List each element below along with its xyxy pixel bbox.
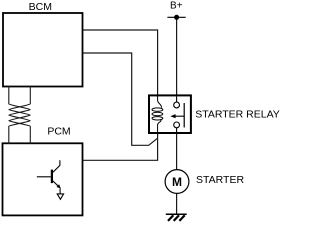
wire motor to ground (176, 193, 178, 214)
svg-text:STARTER RELAY: STARTER RELAY (195, 109, 280, 121)
motor M1 (165, 170, 189, 194)
relay contact top pin (174, 97, 180, 108)
svg-text:BCM: BCM (29, 1, 52, 13)
twisted pair wire B (BCM to PCM) (9, 86, 31, 144)
box PCM (3, 143, 83, 215)
ground chassis symbol (166, 214, 187, 221)
wire BCM pin1 to relay coil top (83, 30, 158, 95)
relay actuation arrow (170, 114, 184, 118)
svg-text:M: M (172, 175, 182, 189)
relay armature bar (183, 103, 185, 128)
relay coil loop 1 (152, 108, 163, 111)
relay coil exit wire (158, 120, 161, 132)
relay contact bottom pin (174, 122, 180, 132)
relay coil entry wire (158, 96, 162, 108)
wire BCM pin2 to relay coil bottom (83, 53, 158, 145)
wire relay coil bottom to PCM transistor collector (60, 134, 158, 160)
twisted pair wire A (BCM to PCM) (9, 86, 31, 144)
svg-text:PCM: PCM (47, 126, 70, 138)
relay K1 box (149, 95, 191, 133)
relay coil loop 2 (152, 112, 163, 115)
node B+ terminal (167, 15, 185, 20)
wire relay contact bottom to motor (176, 134, 178, 170)
box BCM (3, 13, 83, 87)
svg-text:B+: B+ (170, 1, 183, 12)
wire B+ to relay contact top (176, 17, 178, 95)
transistor Q1 (NPN in PCM) (37, 160, 64, 199)
svg-text:STARTER: STARTER (196, 174, 244, 186)
relay coil loop 3 (152, 117, 163, 120)
